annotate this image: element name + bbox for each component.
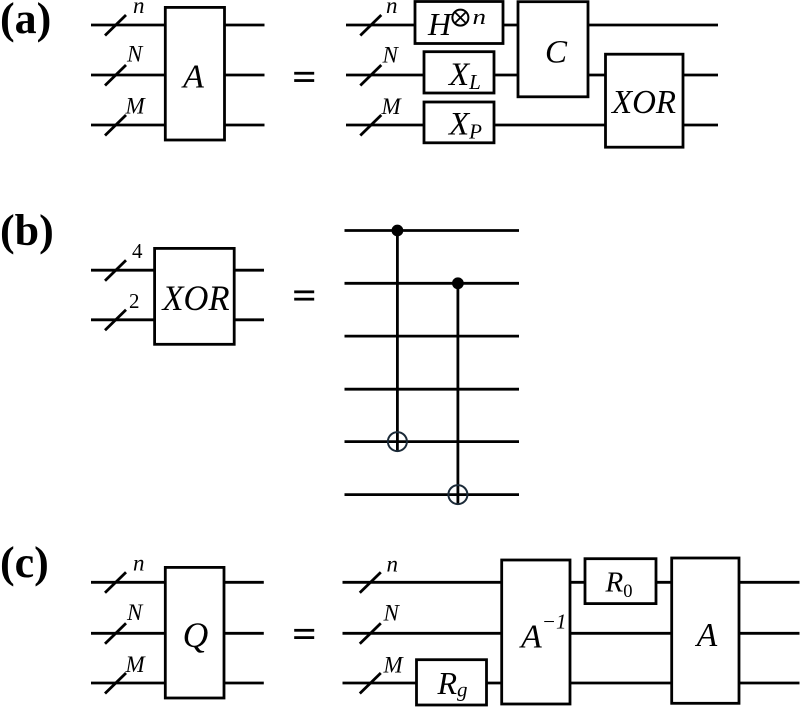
svg-text:A: A — [181, 59, 204, 96]
wire c-right n (full row) — [343, 581, 800, 584]
tensor-product circle of H superscript — [452, 10, 468, 26]
svg-text:H: H — [427, 6, 453, 42]
wire c-left out n — [223, 581, 264, 584]
bus slash n (c left) — [105, 572, 126, 593]
svg-text:4: 4 — [132, 239, 143, 263]
gate box XL — [424, 52, 494, 93]
bus slash 2 — [105, 310, 126, 331]
gate box R0 — [585, 559, 656, 604]
CNOT 1 target XOR circle on q5 — [388, 432, 407, 451]
gate box XOR (panel b) — [155, 248, 235, 344]
wire a-left qubit bus M (into A) — [91, 124, 167, 127]
equals sign (a) bar 2 — [294, 79, 314, 82]
CNOT 2 target XOR circle on q6 — [448, 485, 467, 504]
svg-text:N: N — [383, 601, 401, 626]
gate box A inverse — [502, 560, 570, 704]
svg-text:N: N — [126, 600, 144, 625]
gate box Q — [165, 567, 224, 698]
svg-text:C: C — [545, 35, 568, 71]
wire a-left out n — [223, 24, 265, 27]
wire b-right qubit 5 — [345, 440, 520, 443]
svg-text:(b): (b) — [0, 206, 54, 255]
svg-text:n: n — [387, 552, 399, 577]
CNOT 1 vertical line (control q1 to target q5) — [396, 231, 399, 453]
wire c-right N (full row) — [343, 632, 800, 635]
gate box XOR (panel a) — [606, 54, 684, 147]
svg-text:n: n — [386, 0, 398, 18]
gate box XP — [424, 102, 494, 143]
bus slash M (c right) — [360, 673, 381, 694]
wire c-left qubit bus N (into Q) — [91, 632, 167, 635]
wire c-left out M — [223, 682, 264, 685]
gate box A (panel a) — [165, 7, 224, 140]
equals sign (b) bar 1 — [294, 290, 314, 293]
wire b-left bus 2 (into XOR) — [91, 318, 156, 321]
wire c-left qubit bus n (into Q) — [91, 581, 167, 584]
bus slash 4 — [105, 260, 126, 281]
svg-text:M: M — [125, 94, 147, 119]
bus slash N (a left) — [105, 65, 126, 86]
CNOT 2 control dot on q2 — [452, 277, 464, 289]
gate box Rg — [417, 660, 487, 705]
bus slash N (c right) — [360, 623, 381, 644]
wire b-right qubit 4 — [345, 388, 520, 391]
wire b-right qubit 3 — [345, 335, 520, 338]
svg-text:XOR: XOR — [610, 84, 676, 121]
CNOT 1 control dot on q1 — [392, 225, 404, 237]
svg-text:XOR: XOR — [161, 278, 230, 318]
svg-text:n: n — [133, 0, 145, 18]
svg-text:n: n — [133, 551, 145, 576]
tensor-product cross stroke 2 — [455, 12, 466, 23]
tensor-product cross stroke 1 — [455, 12, 466, 23]
svg-text:Q: Q — [183, 615, 209, 655]
svg-text:N: N — [382, 43, 400, 68]
wire a-left qubit bus n (into A) — [91, 24, 167, 27]
wire b-left bus 4 (into XOR) — [91, 269, 156, 272]
wire c-left qubit bus M (into Q) — [91, 682, 167, 685]
wire a-right M (full row) — [346, 124, 718, 127]
svg-text:M: M — [383, 653, 405, 678]
wire a-right N (full row) — [346, 74, 718, 77]
wire b-left out 2 — [233, 318, 264, 321]
equals sign (c) bar 1 — [294, 629, 314, 632]
bus slash N (c left) — [105, 623, 126, 644]
gate box A (c right) — [672, 558, 739, 703]
bus slash M (a left) — [105, 115, 126, 136]
wire a-left out M — [223, 124, 265, 127]
wire a-left out N — [223, 74, 265, 77]
wire c-right M (full row) — [343, 682, 800, 685]
svg-text:(c): (c) — [0, 538, 49, 587]
CNOT 2 vertical line (control q2 to target q6) — [456, 283, 459, 505]
svg-text:M: M — [381, 94, 403, 119]
gate box H tensor n — [415, 2, 503, 44]
gate box C — [518, 2, 588, 97]
bus slash M (c left) — [105, 673, 126, 694]
svg-text:M: M — [125, 652, 147, 677]
wire b-right qubit 6 — [345, 493, 520, 496]
svg-text:N: N — [126, 42, 144, 67]
equals sign (b) bar 2 — [294, 298, 314, 301]
wire b-left out 4 — [233, 269, 264, 272]
bus slash M (a right) — [360, 115, 381, 136]
equals sign (c) bar 2 — [294, 636, 314, 639]
wire b-right qubit 1 — [345, 229, 520, 232]
svg-text:A: A — [695, 617, 718, 654]
bus slash n (c right) — [360, 572, 381, 593]
bus slash n (a right) — [360, 15, 381, 36]
wire a-right n (full row) — [346, 24, 718, 27]
wire b-right qubit 2 — [345, 282, 520, 285]
equals sign (a) bar 1 — [294, 72, 314, 75]
svg-text:(a): (a) — [0, 0, 51, 43]
wire c-left out N — [223, 632, 264, 635]
wire a-left qubit bus N (into A) — [91, 74, 167, 77]
bus slash N (a right) — [360, 65, 381, 86]
svg-text:n: n — [473, 4, 487, 29]
svg-text:2: 2 — [129, 289, 140, 313]
bus slash n (a left) — [105, 15, 126, 36]
